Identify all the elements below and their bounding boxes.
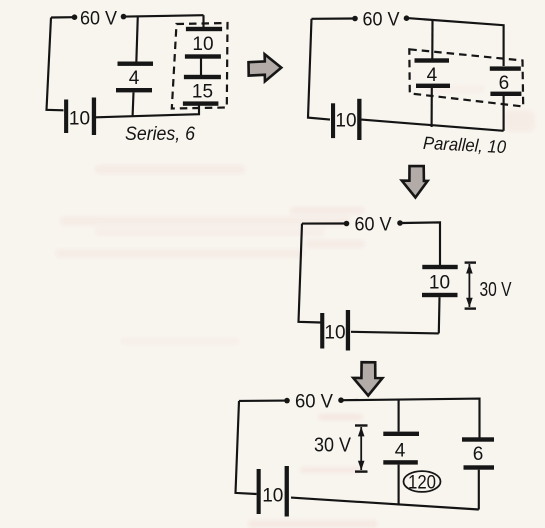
flow arrow 2 (down) — [402, 166, 428, 198]
node dot left of 60 V (circuit2) — [352, 16, 358, 22]
svg-text:4: 4 — [395, 441, 406, 462]
wire branch to capacitor 4 (top) — [136, 16, 138, 63]
wire into dashed box (circuit1) — [202, 15, 204, 29]
wire top circuit1 — [51, 15, 204, 17]
svg-text:120: 120 — [408, 473, 436, 494]
svg-text:10: 10 — [262, 486, 283, 507]
svg-text:60 V: 60 V — [355, 215, 392, 236]
label 60 V (circuit1) — [80, 9, 117, 30]
wire below capacitor 6 (circuit4) — [478, 470, 480, 510]
node dot left of 60 V (circuit4) — [284, 398, 290, 404]
wire left side circuit4 — [236, 401, 257, 494]
svg-text:4: 4 — [129, 68, 140, 89]
wire bottom circuit2 — [362, 120, 504, 131]
svg-text:10: 10 — [192, 34, 213, 55]
flow arrow 3 (down) — [353, 362, 382, 395]
capacitor 10 (battery-style, circuit1) — [64, 98, 96, 136]
node dot left of 60 V (circuit3) — [344, 221, 350, 227]
value label 10 (circuit3) — [429, 273, 450, 294]
wire left side circuit1 — [47, 18, 64, 111]
node dot right of 60 V (circuit3) — [397, 220, 403, 226]
wire branch to capacitor 4 (circuit4) — [398, 400, 400, 432]
wire bottom circuit4 — [291, 498, 479, 510]
wire top circuit4 — [239, 399, 480, 438]
wire below capacitor 10 (circuit3) — [438, 297, 441, 333]
svg-text:60 V: 60 V — [80, 9, 117, 30]
svg-text:Series, 6: Series, 6 — [125, 124, 195, 145]
node dot left of 60 V (circuit1) — [72, 14, 78, 20]
svg-text:30 V: 30 V — [480, 279, 513, 301]
value label 10 (series capacitor) — [192, 34, 213, 55]
capacitor 10 (battery-style, circuit4) — [257, 466, 289, 517]
capacitor 4 (circuit2) — [415, 58, 451, 88]
wire top circuit2 — [312, 18, 504, 66]
wire bottom circuit1 — [96, 105, 199, 117]
capacitor 4 (circuit4) — [383, 432, 419, 465]
capacitor 10 (inside dashed box) — [185, 27, 222, 59]
capacitor 10 (battery-style, circuit2) — [331, 99, 362, 140]
capacitor 4 (circuit1) — [116, 62, 153, 93]
30 V annotation arrow (circuit4) — [355, 426, 368, 472]
label Series, 6 — [125, 124, 195, 145]
node dot right of 60 V (circuit1) — [121, 14, 127, 20]
svg-text:60 V: 60 V — [363, 10, 400, 31]
value label 10 (battery capacitor, circuit3) — [324, 323, 345, 344]
capacitor 15 (inside dashed box) — [183, 75, 221, 106]
wire below capacitor 6 (circuit2) — [503, 96, 505, 131]
wire left side circuit3 — [299, 224, 321, 323]
wire top circuit3 — [302, 222, 440, 265]
value label 10 (battery capacitor, circuit1) — [69, 109, 90, 130]
label 30 V (circuit3) — [480, 279, 513, 301]
capacitor 10 (circuit3) — [422, 265, 458, 297]
svg-text:10: 10 — [429, 273, 450, 294]
svg-text:15: 15 — [192, 82, 213, 103]
svg-text:30 V: 30 V — [314, 435, 352, 457]
capacitor 10 (battery-style, circuit3) — [320, 310, 350, 351]
label 60 V (circuit3) — [355, 215, 392, 236]
svg-text:6: 6 — [499, 73, 510, 94]
svg-text:10: 10 — [69, 109, 90, 130]
svg-text:10: 10 — [324, 323, 345, 344]
wire between series capacitors — [200, 59, 202, 76]
dashed grouping box (series pair, circuit1) — [172, 23, 228, 109]
value label 15 (series capacitor) — [192, 82, 213, 103]
wire left side circuit2 — [308, 19, 330, 120]
value label 4 (circuit1) — [129, 68, 140, 89]
node dot right of 60 V (circuit4) — [338, 397, 344, 403]
svg-text:10: 10 — [335, 111, 356, 132]
capacitor 6 (circuit4) — [462, 437, 494, 469]
value label 4 (circuit4) — [395, 441, 406, 462]
value label 10 (battery capacitor, circuit4) — [262, 486, 283, 507]
value label 4 (circuit2) — [427, 65, 438, 86]
wire below capacitor 4 (circuit4) — [398, 465, 400, 506]
charge label 120 with ellipse (circuit4) — [404, 471, 441, 493]
wire bottom circuit3 — [351, 332, 439, 334]
wire below capacitor 4 — [132, 93, 135, 116]
wire branch to capacitor 4 (circuit2) — [431, 20, 433, 60]
svg-text:60 V: 60 V — [295, 392, 333, 413]
flow arrow 1 (right) — [249, 54, 282, 81]
label 60 V (circuit4) — [295, 392, 333, 413]
label 60 V (circuit2) — [363, 10, 400, 31]
label Parallel, 10 — [423, 133, 507, 157]
svg-text:4: 4 — [427, 65, 438, 86]
30 V annotation arrow (circuit3) — [465, 263, 476, 309]
svg-text:6: 6 — [473, 444, 484, 465]
label 30 V (circuit4) — [314, 435, 352, 457]
value label 10 (battery capacitor, circuit2) — [335, 111, 356, 132]
value label 6 (circuit4) — [473, 444, 484, 465]
node dot right of 60 V (circuit2) — [404, 15, 410, 21]
wire below capacitor 4 (circuit2) — [431, 88, 433, 127]
capacitor 6 (circuit2) — [490, 66, 522, 96]
dashed grouping box (parallel pair, circuit2) — [409, 49, 523, 106]
value label 6 (circuit2) — [499, 73, 510, 94]
